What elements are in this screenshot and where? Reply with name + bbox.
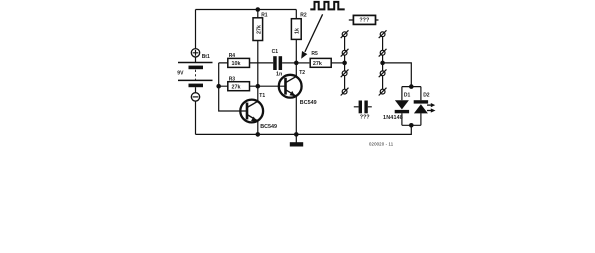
junction dot right chain (380, 61, 385, 66)
pin header right chain (379, 30, 387, 95)
wire T1 emitter to bottom rail (257, 121, 259, 134)
svg-text:D2: D2 (423, 92, 430, 98)
svg-text:T2: T2 (299, 70, 305, 76)
pin P8 (379, 88, 387, 96)
wire mid line R4 to C1 (219, 62, 274, 64)
svg-text:R1: R1 (261, 13, 268, 19)
battery Bt1 (178, 49, 213, 102)
wire R3 line to T2 base (219, 85, 285, 87)
wire T2 emitter to bottom rail (295, 96, 297, 134)
capacitor C1 (273, 56, 282, 70)
wire top supply rail (196, 9, 297, 11)
svg-text:C1: C1 (272, 49, 279, 55)
svg-text:27k: 27k (313, 61, 322, 67)
svg-text:9V: 9V (177, 71, 184, 77)
wire C1 right to junction (282, 62, 296, 64)
svg-text:R4: R4 (229, 53, 236, 59)
resistor R5 (310, 58, 331, 67)
svg-text:BC549: BC549 (260, 124, 277, 130)
junction dot R3 line x258 (255, 84, 260, 89)
wire R1 top lead (257, 10, 259, 18)
svg-text:T1: T1 (259, 93, 265, 99)
wire (344, 76, 346, 90)
resistor unknown ??? (349, 15, 379, 24)
wire junction to R5 (296, 62, 309, 64)
svg-text:1N4148: 1N4148 (383, 115, 403, 121)
svg-text:???: ??? (360, 115, 370, 121)
wire (382, 37, 384, 51)
wire battery minus to bottom rail (195, 101, 197, 134)
resistor R1 (253, 18, 263, 41)
junction dot left chain (342, 61, 347, 66)
junction dot T2 emitter rail (294, 132, 299, 137)
pin P7 (379, 69, 387, 77)
pin header left chain (341, 30, 349, 95)
pin P6 (379, 49, 387, 57)
transistor T1 (240, 100, 263, 123)
arrow pointer to node (301, 14, 322, 59)
svg-text:D1: D1 (404, 92, 411, 98)
wire R4R3 left vertical to T1 base (219, 63, 247, 111)
resistor R3 (228, 82, 250, 91)
wire (344, 37, 346, 51)
wire T2 collector up to junction (295, 63, 297, 76)
wire R2 top lead (295, 10, 297, 19)
wire R1 bottom to T1 collector (257, 41, 259, 102)
wire (382, 76, 384, 90)
resistor R4 (228, 58, 250, 67)
pin P5 (379, 30, 387, 38)
pin P1 (341, 30, 349, 38)
pin P2 (341, 49, 349, 57)
junction dot main node (294, 61, 299, 66)
svg-text:R2: R2 (300, 13, 307, 19)
svg-text:27k: 27k (232, 84, 241, 90)
junction dot diode top (409, 84, 414, 89)
transistor T2 (279, 75, 302, 98)
svg-text:1n: 1n (276, 71, 282, 77)
svg-text:R5: R5 (311, 51, 318, 57)
junction dot top rail R1 (255, 7, 260, 12)
capacitor unknown ??? (354, 101, 372, 114)
wire (382, 55, 384, 71)
svg-text:R3: R3 (229, 76, 236, 82)
LED D2 (414, 87, 436, 126)
squarewave icon (310, 2, 344, 9)
resistor R2 (291, 19, 301, 40)
svg-text:Bt1: Bt1 (202, 54, 210, 60)
svg-text:27k: 27k (256, 25, 262, 34)
wire bottom rail (196, 125, 412, 134)
junction dot R3 left (216, 84, 221, 89)
wire R2 bottom to junction (295, 39, 297, 63)
svg-text:1k: 1k (295, 28, 301, 34)
LED arrows (427, 104, 431, 106)
wire R5 to left pin chain (332, 62, 345, 64)
ground (290, 134, 303, 146)
junction dot diode bottom (409, 123, 414, 128)
wire diode bottom rail (402, 124, 421, 126)
svg-text:???: ??? (359, 18, 369, 24)
wire right chain to diode node (383, 63, 412, 87)
wire left rail battery top (195, 10, 197, 49)
svg-text:020020 - 11: 020020 - 11 (369, 142, 394, 147)
diode D1 (395, 87, 409, 126)
wire (344, 55, 346, 71)
pin P4 (341, 88, 349, 96)
svg-text:10k: 10k (232, 61, 241, 67)
svg-text:BC549: BC549 (300, 100, 317, 106)
junction dot T1 emitter rail (255, 132, 260, 137)
pin P3 (341, 69, 349, 77)
wire diode top rail (402, 86, 421, 88)
